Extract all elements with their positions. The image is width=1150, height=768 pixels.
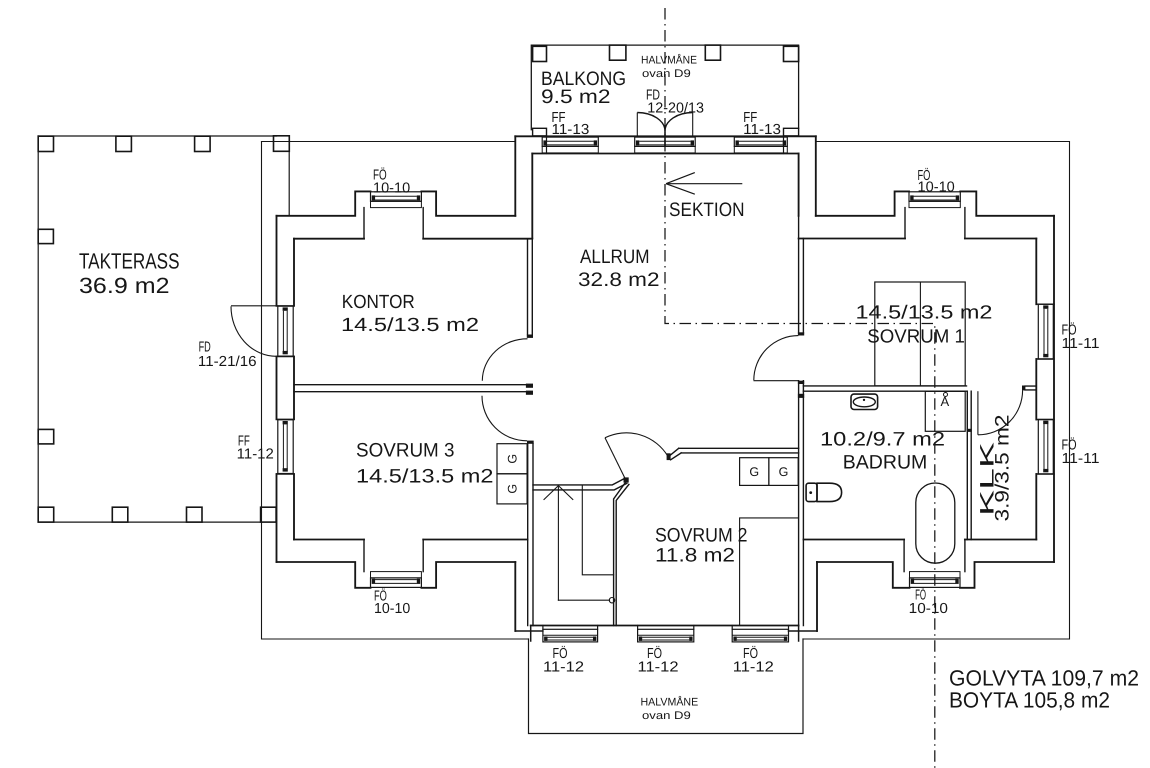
svg-text:SOVRUM 3: SOVRUM 3 <box>356 440 455 462</box>
halvmane roof box below <box>529 639 804 734</box>
section arrow shaft <box>666 183 742 185</box>
badrum bay east reveal <box>964 540 966 572</box>
angled door jamb2 <box>667 453 671 460</box>
svg-text:11.8 m2: 11.8 m2 <box>655 545 735 567</box>
window FO 10-10 sovrum3 bay frame <box>371 578 422 588</box>
wire from post NE down to NW house corner <box>288 151 290 215</box>
wardrobe G box sovrum3 lower <box>497 474 527 504</box>
interior wall jamb blocks at door end <box>526 384 533 388</box>
west wall inner face segments <box>293 239 295 540</box>
wardrobe G box sovrum3 upper <box>497 444 527 474</box>
sovrum1 bay east reveal <box>964 208 966 239</box>
south wall inner face centre section <box>531 625 799 627</box>
sovrum1 north wall outer with bay <box>816 191 1054 215</box>
pier jamb into wall right <box>783 136 785 154</box>
wall sovrum1 / badrum <box>803 386 966 391</box>
centre-south section east side wall <box>816 562 818 631</box>
stair opening outline <box>582 486 613 575</box>
wardrobe G box sovrum2 left <box>740 458 769 486</box>
section arrow barb lower <box>666 184 695 195</box>
door klk leaf <box>977 391 979 435</box>
balcony post N-mid2 <box>705 45 720 60</box>
window FO 11-12 south 3 frame <box>732 629 788 642</box>
window FF 11-13 left frame <box>542 137 598 146</box>
door sovrum1 leaf open <box>754 380 799 382</box>
jamb cap below badrum wall tee <box>798 394 804 398</box>
balcony pier SE <box>784 128 799 136</box>
window FO 10-10 badrum bay frame <box>910 578 961 588</box>
north wall inner face (centre section) <box>532 153 798 155</box>
east wall inner face segments <box>1035 239 1037 540</box>
balcony post NE corner <box>784 46 799 61</box>
window FO 10-10 sovrum3 bay sill <box>371 572 422 578</box>
window FO 10-10 kontor bay frame <box>371 192 422 202</box>
takterass post SW <box>38 507 54 522</box>
window FO 11-11 lower frame <box>1038 420 1053 475</box>
balcony double door right leaf <box>692 113 694 136</box>
door sovrum1 swing arc <box>754 336 799 381</box>
window FF 11-13 right sill <box>734 146 787 153</box>
svg-text:11-12: 11-12 <box>733 659 774 675</box>
north wall outer face (centre section) <box>515 135 816 137</box>
sovrum3 bay east reveal <box>422 540 424 572</box>
svg-text:HALVMÅNE: HALVMÅNE <box>641 695 699 708</box>
eaves / roof outline <box>262 142 1070 640</box>
hall/stair north wall <box>533 478 627 490</box>
hall west wall end cap <box>527 441 534 444</box>
bathtub badrum <box>916 483 955 563</box>
west wall outer face segments <box>276 216 278 562</box>
badrum bay west reveal <box>903 540 905 572</box>
east window1 head+sill jambs <box>1036 304 1054 359</box>
svg-text:G: G <box>506 484 520 494</box>
angled door jamb1 <box>624 477 629 482</box>
south wall outer badrum section with bay <box>817 562 1054 588</box>
west FD opening jambs <box>277 306 295 357</box>
balcony double door right swing arc <box>665 113 693 132</box>
takterass post N2 <box>116 136 131 151</box>
kontor bay west reveal <box>363 208 365 239</box>
window FF 11-13 left sill <box>542 146 598 153</box>
window FF 11-12 west assembly <box>278 420 293 474</box>
door sovrum2 swing arc <box>605 433 668 457</box>
window FO 10-10 sovrum1 bay frame <box>909 192 960 202</box>
south wall inner face sovrum3 section <box>294 539 528 541</box>
takterass post N3 <box>195 136 211 151</box>
stairwell east wall upper diagonal <box>614 483 629 626</box>
west FF window jambs <box>277 419 295 474</box>
allrum west wall inner line <box>531 154 533 238</box>
stair bottom landing line <box>558 599 609 601</box>
balcony double door left swing arc <box>637 113 665 132</box>
wall badrum / klk <box>967 391 971 539</box>
kontor bay east reveal <box>422 208 424 239</box>
south wall inner face badrum/klk section <box>804 539 1037 541</box>
takterass post NE at house wall <box>274 136 290 152</box>
label G sovrum3 lower rotated <box>506 484 520 494</box>
centre-south section west side wall <box>514 562 516 631</box>
door FD 12-20/13 frame <box>635 137 696 146</box>
svg-text:32.8 m2: 32.8 m2 <box>578 269 660 291</box>
partition end cap <box>527 335 533 338</box>
wardrobe G box sovrum2 right <box>769 458 798 486</box>
hall west wall <box>528 444 533 626</box>
shower cabin badrum <box>925 391 965 431</box>
door sovrum3-hall swing arc <box>482 396 527 441</box>
svg-text:11-21/16: 11-21/16 <box>198 354 257 370</box>
partition end cap above allrum door <box>798 332 804 335</box>
partition allrum/kontor <box>528 238 533 335</box>
door sovrum2 angled leaf <box>605 438 627 482</box>
svg-text:10-10: 10-10 <box>918 180 955 196</box>
door FD 11-21/16 leaf open onto terrace <box>231 305 277 307</box>
bed sovrum1 outline <box>875 282 965 386</box>
south wall outer face centre section west stub <box>515 630 543 632</box>
svg-text:HALVMÅNE: HALVMÅNE <box>641 54 697 67</box>
takterass post S3 <box>187 507 203 522</box>
balcony double door centre meeting stile <box>664 131 666 146</box>
svg-text:11-12: 11-12 <box>237 447 274 463</box>
door kontor-allrum swing arc <box>482 339 527 381</box>
south wall outer face centre section east stub <box>789 630 818 632</box>
svg-text:SOVRUM 1: SOVRUM 1 <box>867 326 965 347</box>
stair walk line with arrow <box>557 487 559 600</box>
svg-text:KONTOR: KONTOR <box>342 292 415 313</box>
newel post circle <box>609 598 614 603</box>
svg-text:SEKTION: SEKTION <box>669 199 745 221</box>
balcony post NW corner <box>533 46 547 61</box>
washbasin badrum <box>851 394 878 409</box>
kontor north wall outer with bay <box>277 191 516 215</box>
kontor north wall inner face <box>294 238 532 240</box>
interior wall kontor/sovrum3 <box>294 385 526 392</box>
pier jamb into wall left <box>546 136 548 154</box>
door klk swing arc <box>978 390 1023 435</box>
svg-text:10.2/9.7 m2: 10.2/9.7 m2 <box>820 429 945 451</box>
svg-text:11-12: 11-12 <box>638 659 679 675</box>
balcony post N-mid1 <box>610 45 626 60</box>
door FD 11-21/16 west assembly <box>278 306 293 356</box>
window FO 11-11 upper frame <box>1038 304 1053 359</box>
window FO 11-12 south 1 frame <box>543 629 598 642</box>
balcony parapet outline <box>531 45 798 130</box>
sovrum1 north wall inner face <box>799 238 1037 240</box>
partition below allrum door down to south wall <box>799 381 804 626</box>
sovrum2 closet outline <box>740 518 799 626</box>
centre-south inner west corner <box>530 626 532 642</box>
svg-text:10-10: 10-10 <box>373 180 410 196</box>
window FO 10-10 badrum bay sill <box>910 572 961 578</box>
takterass post SE at eaves line <box>261 507 277 522</box>
bed sovrum1 centre line <box>919 282 921 386</box>
svg-text:G: G <box>749 465 759 479</box>
svg-text:11-13: 11-13 <box>743 122 781 138</box>
window FF 11-13 right frame <box>734 137 787 146</box>
svg-text:G: G <box>506 454 520 464</box>
section cut line <box>665 8 935 768</box>
door FD 12-20/13 sill <box>635 146 696 153</box>
sovrum1 bay west reveal <box>904 208 906 239</box>
klk door stub wall <box>1025 386 1036 390</box>
sovrum3 bay west reveal <box>363 540 365 572</box>
south wall outer sovrum3 section with bay <box>277 562 516 588</box>
window FO 10-10 kontor bay sill <box>371 201 422 207</box>
svg-text:11-11: 11-11 <box>1062 451 1100 467</box>
svg-text:14.5/13.5 m2: 14.5/13.5 m2 <box>341 315 479 336</box>
takterass post W-mid1 <box>38 229 53 243</box>
takterass post S2 <box>112 507 128 522</box>
label G sovrum3 upper rotated <box>506 454 520 464</box>
svg-text:14.5/13.5 m2: 14.5/13.5 m2 <box>856 303 993 324</box>
jamb cap below allrum door <box>798 381 804 384</box>
svg-text:BADRUM: BADRUM <box>843 452 928 474</box>
window FO 11-12 south 2 frame <box>638 629 694 642</box>
allrum west gable wall outer <box>514 136 516 216</box>
svg-text:3.9/3.5 m2: 3.9/3.5 m2 <box>992 415 1014 522</box>
sovrum2 west wall (partition) <box>799 216 804 333</box>
centre-south inner east corner <box>798 626 800 642</box>
svg-text:11-11: 11-11 <box>1062 336 1100 352</box>
takterass post W-mid2 <box>38 429 54 444</box>
klk door jamb <box>1022 386 1025 391</box>
balcony double door left leaf <box>636 113 638 136</box>
allrum east gable wall outer <box>815 136 817 216</box>
svg-text:TAKTERASS: TAKTERASS <box>79 249 180 274</box>
window FO 10-10 sovrum1 bay sill <box>909 201 960 207</box>
svg-text:10-10: 10-10 <box>909 601 948 617</box>
connector jamb2 to sovrum2 wall <box>670 448 681 460</box>
klk wall small cap <box>967 429 972 432</box>
svg-text:36.9 m2: 36.9 m2 <box>79 273 170 298</box>
svg-text:ovan D9: ovan D9 <box>642 68 691 80</box>
svg-text:12-20/13: 12-20/13 <box>647 101 704 117</box>
east window2 head+sill jambs <box>1036 420 1054 475</box>
east wall outer face <box>1053 216 1055 562</box>
allrum east wall inner line <box>798 154 800 216</box>
takterass post NW <box>38 136 53 151</box>
svg-text:14.5/13.5 m2: 14.5/13.5 m2 <box>356 466 494 488</box>
balcony pier SW <box>533 128 547 136</box>
toilet badrum tank <box>806 483 817 501</box>
toilet badrum bowl <box>817 483 842 501</box>
svg-text:SOVRUM 2: SOVRUM 2 <box>655 525 748 547</box>
door FD 11-21/16 swing arc <box>231 306 276 356</box>
svg-text:10-10: 10-10 <box>374 601 410 617</box>
svg-text:BOYTA 105,8 m2: BOYTA 105,8 m2 <box>949 688 1110 713</box>
svg-text:9.5 m2: 9.5 m2 <box>541 86 611 108</box>
svg-text:11-12: 11-12 <box>543 659 584 675</box>
svg-text:G: G <box>779 465 789 479</box>
svg-text:ALLRUM: ALLRUM <box>580 246 650 268</box>
svg-text:11-13: 11-13 <box>552 122 590 138</box>
window jamb stubs south centre <box>543 626 789 630</box>
takterass deck outline <box>38 136 276 522</box>
sovrum2 north wall <box>679 448 799 453</box>
section arrow barb upper <box>666 173 695 184</box>
svg-text:ovan D9: ovan D9 <box>642 710 691 722</box>
